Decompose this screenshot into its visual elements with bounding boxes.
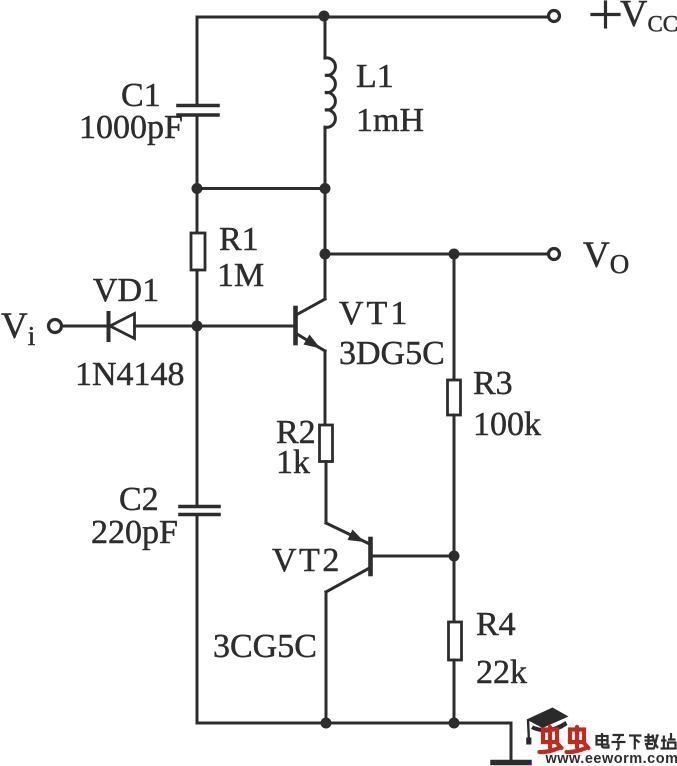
svg-text:R1: R1 <box>219 221 259 258</box>
inductor L1 <box>325 17 335 254</box>
capacitor C2 <box>180 507 219 515</box>
terminal Vi <box>49 320 62 333</box>
resistor R3 <box>448 380 461 415</box>
svg-text:R3: R3 <box>473 365 513 402</box>
svg-text:1N4148: 1N4148 <box>75 356 185 393</box>
node top junction (L1/top rail) <box>319 11 330 22</box>
terminal +Vcc <box>549 11 560 22</box>
ground <box>493 760 529 766</box>
wire bottom rail <box>197 722 511 725</box>
wire R4 to bottom rail <box>453 660 456 723</box>
wire left vertical (C1 to R1) <box>196 117 199 234</box>
diode VD1 <box>109 313 135 340</box>
node junction bottom/VT2 <box>321 718 332 729</box>
node junction base (diode/left vertical) <box>192 321 203 332</box>
wire link C1-L1 <box>197 187 325 190</box>
wire R3 to R4 <box>453 415 456 622</box>
svg-text:www.eeworm.com: www.eeworm.com <box>545 751 677 766</box>
wire left vertical (R1 to C2) <box>196 270 199 505</box>
svg-text:VT1: VT1 <box>339 295 410 332</box>
logo 电子下载站 characters <box>597 733 676 750</box>
node junction link/L1 <box>320 183 331 194</box>
wire VT2 collector to bottom rail <box>325 592 328 723</box>
wire R3 branch top <box>453 254 456 380</box>
svg-text:1M: 1M <box>217 257 264 294</box>
logo graduation cap <box>526 708 568 745</box>
svg-text:L1: L1 <box>356 58 394 95</box>
wire ground drop <box>510 723 513 760</box>
resistor R1 <box>191 233 205 270</box>
wire diode to VT1 base <box>135 325 294 328</box>
svg-text:220pF: 220pF <box>91 514 178 551</box>
svg-text:1k: 1k <box>276 444 310 481</box>
node collector junction (Vo net) <box>320 249 331 260</box>
wire VT1 emitter to R2 <box>324 351 327 425</box>
wire VT2 base to R3/R4 <box>372 555 454 558</box>
svg-text:C2: C2 <box>119 481 159 518</box>
svg-text:3DG5C: 3DG5C <box>339 335 445 372</box>
capacitor C1 <box>178 106 218 116</box>
svg-text:3CG5C: 3CG5C <box>213 628 317 665</box>
transistor VT1 <box>296 254 326 351</box>
resistor R4 <box>449 622 462 660</box>
transistor VT2 <box>326 523 371 592</box>
node junction left/link <box>192 183 203 194</box>
node junction base/R3R4 <box>449 551 460 562</box>
svg-text:22k: 22k <box>476 654 527 691</box>
svg-text:1000pF: 1000pF <box>79 109 183 146</box>
svg-text:R4: R4 <box>476 606 516 643</box>
node junction bottom/R4 <box>449 718 460 729</box>
svg-text:1mH: 1mH <box>356 102 424 139</box>
svg-text:VT2: VT2 <box>272 542 342 579</box>
wire left vertical (C2 to bottom rail) <box>196 516 199 723</box>
label +Vcc <box>592 0 677 37</box>
svg-text:100k: 100k <box>473 406 541 443</box>
wire Vi to diode <box>62 325 106 328</box>
terminal Vo <box>549 249 560 260</box>
wire R2 to VT2 emitter <box>325 462 328 524</box>
wire left vertical (top rail to C1) <box>196 17 199 104</box>
wire Vo horizontal <box>325 253 547 256</box>
svg-text:VD1: VD1 <box>93 272 159 309</box>
resistor R2 <box>320 425 333 462</box>
logo 虫虫 red characters <box>540 727 589 752</box>
node junction Vo/R3 <box>449 249 460 260</box>
wire top rail <box>197 16 547 19</box>
